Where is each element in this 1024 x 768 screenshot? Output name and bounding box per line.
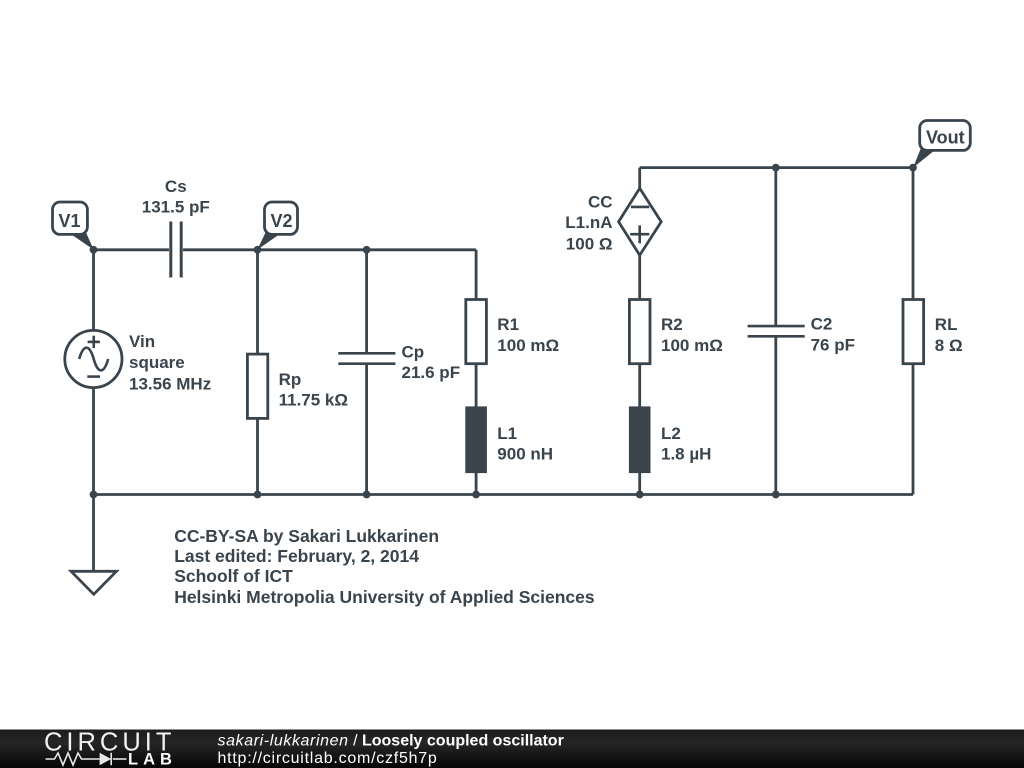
wire node to Cp bbox=[365, 250, 368, 352]
wire Vout to RL bbox=[912, 168, 915, 300]
svg-text:Last edited: February, 2, 2014: Last edited: February, 2, 2014 bbox=[174, 546, 419, 566]
footer bar bbox=[0, 730, 1024, 768]
Vin sine wave bbox=[79, 348, 108, 371]
node V2 dot bbox=[254, 246, 262, 254]
svg-text:100 mΩ: 100 mΩ bbox=[661, 336, 723, 355]
node Cp-bottom junction dot bbox=[363, 491, 371, 499]
wire Rp to bottom rail bbox=[256, 418, 259, 494]
svg-text:Helsinki Metropolia University: Helsinki Metropolia University of Applie… bbox=[174, 587, 595, 607]
wire ground lead bbox=[92, 495, 95, 572]
label Vin value bbox=[129, 332, 211, 393]
CC plus sign bbox=[630, 233, 649, 236]
wire C2 to bottom rail bbox=[774, 337, 777, 494]
wire L1 to bottom rail bbox=[475, 473, 478, 495]
svg-text:Cs: Cs bbox=[165, 177, 187, 196]
svg-text:L1: L1 bbox=[497, 424, 517, 443]
wire bottom rail bbox=[94, 493, 914, 496]
svg-text:Schoolf of ICT: Schoolf of ICT bbox=[174, 566, 293, 586]
Vin plus sign bbox=[88, 341, 100, 344]
svg-text:RL: RL bbox=[935, 315, 958, 334]
label Cp value bbox=[402, 343, 461, 383]
label Cs value bbox=[142, 177, 210, 217]
svg-text:13.56 MHz: 13.56 MHz bbox=[129, 374, 211, 393]
voltage source Vin bbox=[65, 330, 122, 387]
node C2-top junction dot bbox=[772, 164, 780, 172]
svg-text:100 Ω: 100 Ω bbox=[566, 234, 613, 253]
label L1 value bbox=[497, 424, 553, 464]
node Vout dot bbox=[909, 164, 917, 172]
wire rail to CC top bbox=[638, 168, 641, 189]
wire L2 to bottom rail bbox=[638, 473, 641, 495]
wire rail to R1 bbox=[475, 250, 478, 300]
wire Cp to bottom rail bbox=[365, 365, 368, 495]
node L2-bottom junction dot bbox=[636, 491, 644, 499]
label C2 value bbox=[811, 315, 855, 355]
wire top rail left (V1 to Cs) bbox=[94, 248, 170, 251]
node L1-bottom junction dot bbox=[472, 491, 480, 499]
node label V1 bbox=[53, 202, 94, 250]
dependent source CC (diamond) bbox=[619, 188, 662, 255]
wire rail to C2 bbox=[774, 168, 777, 325]
svg-text:http://circuitlab.com/czf5h7p: http://circuitlab.com/czf5h7p bbox=[218, 750, 438, 767]
svg-text:CC-BY-SA by Sakari Lukkarinen: CC-BY-SA by Sakari Lukkarinen bbox=[174, 526, 439, 546]
node Cp-top junction dot bbox=[363, 246, 371, 254]
label RL value bbox=[935, 315, 963, 355]
svg-text:R1: R1 bbox=[497, 315, 519, 334]
label R1 value bbox=[497, 315, 559, 355]
svg-text:L1.nA: L1.nA bbox=[565, 213, 612, 232]
svg-text:76 pF: 76 pF bbox=[811, 335, 855, 354]
svg-text:C2: C2 bbox=[811, 315, 833, 334]
inductor L1 bbox=[466, 407, 487, 473]
capacitor C2 bbox=[748, 326, 805, 336]
svg-text:8 Ω: 8 Ω bbox=[935, 336, 963, 355]
wire top rail (Cs to R1 branch) bbox=[183, 248, 476, 251]
CC minus sign bbox=[631, 206, 649, 209]
svg-text:R2: R2 bbox=[661, 315, 683, 334]
wire R2 to L2 bbox=[638, 364, 641, 407]
annotation text block bbox=[174, 526, 595, 607]
wire CC bottom to R2 bbox=[638, 255, 641, 299]
wire V1 to Vin top bbox=[92, 250, 95, 331]
svg-text:square: square bbox=[129, 353, 185, 372]
svg-text:sakari-lukkarinen / Loosely co: sakari-lukkarinen / Loosely coupled osci… bbox=[218, 733, 564, 750]
wire V2 to Rp bbox=[256, 250, 259, 354]
label Rp value bbox=[279, 370, 348, 410]
resistor Rp bbox=[247, 354, 267, 418]
label R2 value bbox=[661, 315, 723, 355]
svg-text:LAB: LAB bbox=[128, 751, 177, 768]
node V1 dot bbox=[90, 246, 98, 254]
svg-text:V1: V1 bbox=[59, 211, 81, 231]
logo diode triangle bbox=[100, 753, 112, 765]
Vin minus sign bbox=[87, 375, 100, 378]
wire Vin bottom to rail bbox=[92, 388, 95, 495]
capacitor Cp bbox=[338, 353, 395, 363]
svg-text:Vin: Vin bbox=[129, 332, 155, 351]
logo resistor-diode squiggle bbox=[46, 753, 127, 765]
node label Vout bbox=[913, 121, 970, 168]
svg-text:131.5 pF: 131.5 pF bbox=[142, 197, 210, 216]
label CC value bbox=[565, 192, 612, 253]
node label V2 bbox=[257, 202, 297, 250]
svg-text:Vout: Vout bbox=[926, 128, 965, 148]
node ground junction dot bbox=[90, 491, 98, 499]
node Rp-bottom junction dot bbox=[254, 491, 262, 499]
label L2 value bbox=[661, 424, 711, 464]
svg-text:L2: L2 bbox=[661, 424, 681, 443]
svg-text:900 nH: 900 nH bbox=[497, 444, 553, 463]
wire RL to bottom rail bbox=[912, 364, 915, 495]
capacitor Cs bbox=[171, 222, 181, 278]
svg-text:100 mΩ: 100 mΩ bbox=[497, 336, 559, 355]
svg-text:Rp: Rp bbox=[279, 370, 302, 389]
inductor L2 bbox=[629, 407, 650, 473]
wire R1 to L1 bbox=[475, 364, 478, 407]
svg-text:1.8 µH: 1.8 µH bbox=[661, 444, 711, 463]
svg-text:CC: CC bbox=[588, 192, 613, 211]
resistor RL bbox=[903, 300, 924, 364]
svg-text:Cp: Cp bbox=[402, 343, 425, 362]
svg-text:21.6 pF: 21.6 pF bbox=[402, 363, 461, 382]
node C2-bottom junction dot bbox=[772, 491, 780, 499]
wire top rail right (CC to Vout) bbox=[640, 166, 913, 169]
ground bbox=[71, 571, 116, 594]
svg-text:11.75 kΩ: 11.75 kΩ bbox=[279, 390, 348, 409]
resistor R2 bbox=[629, 300, 650, 364]
resistor R1 bbox=[466, 300, 487, 364]
svg-text:V2: V2 bbox=[271, 211, 293, 231]
